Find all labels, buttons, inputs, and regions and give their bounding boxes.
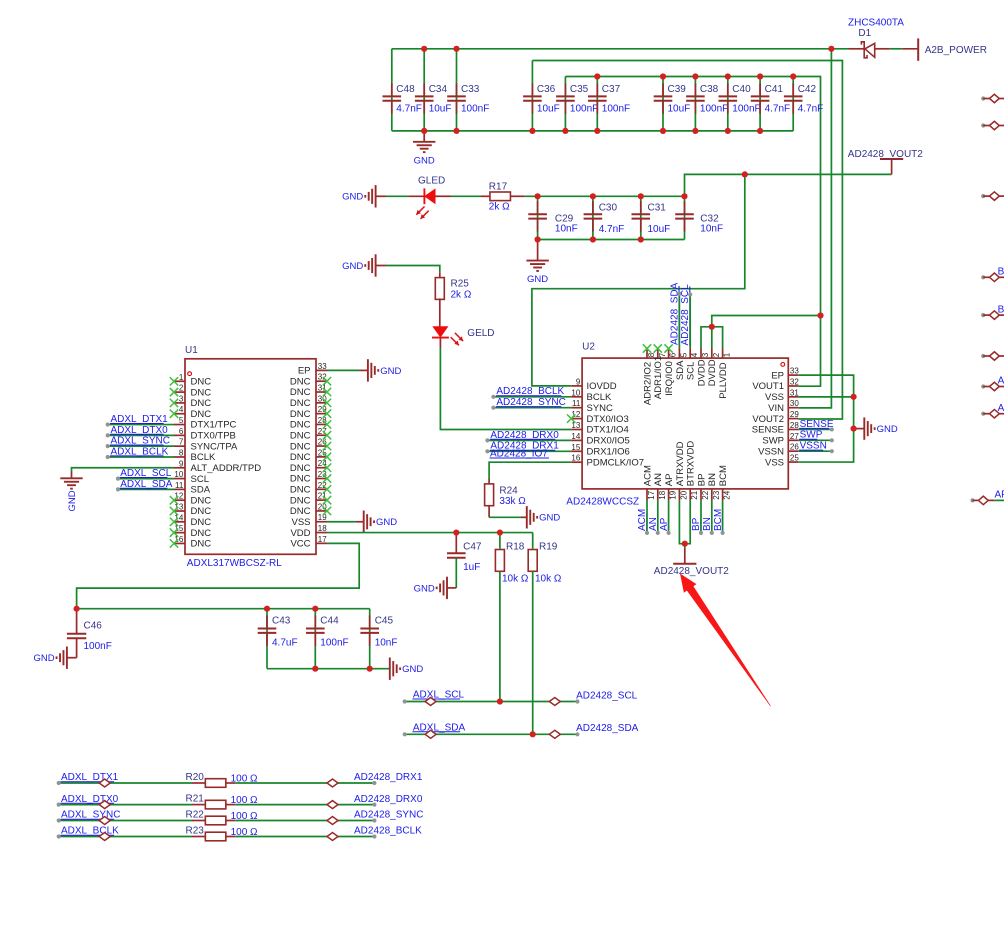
net label BN — [702, 517, 713, 531]
svg-text:10uF: 10uF — [668, 103, 691, 114]
svg-text:GND: GND — [342, 261, 363, 272]
svg-text:VSSN: VSSN — [758, 446, 784, 457]
wire GND to GLED — [376, 195, 425, 197]
svg-text:19: 19 — [669, 490, 678, 499]
svg-text:5: 5 — [679, 352, 688, 357]
wire C47 to ground — [447, 558, 456, 588]
wire VOUT2 top rail — [532, 61, 842, 420]
svg-text:16: 16 — [571, 454, 580, 463]
capacitor C42 — [784, 83, 823, 114]
svg-text:10nF: 10nF — [700, 224, 723, 235]
resistor R22 — [186, 810, 259, 825]
svg-text:DNC: DNC — [191, 377, 212, 388]
svg-text:AN: AN — [653, 473, 664, 486]
svg-text:GND: GND — [414, 583, 435, 594]
net label AD2428_SDA row — [576, 723, 639, 734]
svg-text:3: 3 — [701, 352, 710, 357]
wire C43 bank GND rail — [267, 668, 390, 670]
net label ADXL_SYNC — [110, 436, 170, 447]
svg-text:VIN: VIN — [768, 403, 784, 414]
svg-text:28: 28 — [790, 421, 799, 430]
ground U1 EP — [368, 359, 402, 381]
svg-text:D1: D1 — [858, 28, 871, 39]
svg-text:DNC: DNC — [290, 430, 311, 441]
svg-text:DNC: DNC — [191, 398, 212, 409]
U2 pin names — [587, 356, 785, 486]
wire U1 pin9 to ground — [72, 468, 175, 479]
svg-text:C48: C48 — [396, 84, 415, 95]
ground C46 — [33, 647, 66, 669]
net label AP — [659, 517, 670, 531]
svg-text:4.7nF: 4.7nF — [599, 224, 625, 235]
wire GND to R25 — [376, 266, 440, 279]
svg-text:10uF: 10uF — [648, 224, 671, 235]
resistor R21 — [186, 794, 259, 809]
svg-text:BCLK: BCLK — [587, 392, 612, 403]
svg-text:1: 1 — [723, 352, 732, 357]
wire AD2428_SDA column — [677, 292, 681, 349]
wire AD2428_DRX1 row right — [225, 781, 377, 785]
net label AD2428_SCL row — [576, 690, 638, 701]
svg-text:DNC: DNC — [290, 398, 311, 409]
svg-text:U1: U1 — [185, 345, 198, 356]
capacitor C45 — [360, 615, 397, 648]
svg-text:DNC: DNC — [290, 387, 311, 398]
U2 no-connect marks — [567, 344, 673, 423]
wire cap C35 vertical — [564, 77, 566, 131]
wire AD2428_SYNC row right — [225, 818, 377, 822]
resistor R24 — [485, 484, 527, 507]
svg-text:DNC: DNC — [290, 506, 311, 517]
svg-text:DVDD: DVDD — [707, 359, 718, 386]
svg-text:AP: AP — [664, 474, 675, 487]
net label ADXL_BCLK — [61, 826, 120, 837]
net label AD2428_DRX0 — [490, 430, 559, 441]
diode D1 ZHCS400TA — [831, 17, 918, 58]
svg-text:DVDD: DVDD — [696, 359, 707, 386]
wire U2 VSS31 — [798, 396, 853, 398]
svg-text:10k Ω: 10k Ω — [502, 573, 529, 584]
svg-text:DNC: DNC — [290, 474, 311, 485]
wire VDD net — [327, 532, 533, 534]
wire DVDD top rail — [565, 77, 820, 387]
wire cap C40 vertical — [727, 77, 729, 131]
wire cap C43 vertical — [266, 609, 268, 669]
svg-text:2k Ω: 2k Ω — [451, 289, 472, 300]
svg-text:6: 6 — [669, 352, 678, 357]
wire cap C41 vertical — [759, 77, 761, 131]
connector diamond AD2428_DRX0 — [327, 801, 338, 809]
wire VIN riser to U2 pin30 — [798, 49, 831, 408]
connector diamond AD2428_DRX1 — [327, 779, 338, 787]
wire AP column — [667, 500, 671, 535]
connector diamond ADXL_BCLK — [99, 833, 110, 841]
svg-text:GND: GND — [376, 517, 397, 528]
wire C46 to ground — [67, 638, 77, 658]
wire R18 column — [499, 533, 501, 549]
svg-text:C30: C30 — [599, 203, 618, 214]
wire R19 to ADXL_SDA — [532, 571, 534, 734]
net label AD2428_SYNC — [354, 810, 423, 821]
svg-text:GND: GND — [380, 366, 401, 377]
wire cap C39 vertical — [662, 77, 664, 131]
wire cap C34 vertical — [423, 49, 425, 131]
net label ADXL_SDA — [412, 722, 465, 733]
svg-text:4: 4 — [690, 352, 699, 357]
resistor R18 — [495, 542, 529, 585]
svg-text:ACM: ACM — [642, 465, 653, 486]
svg-text:C32: C32 — [700, 213, 719, 224]
svg-text:DNC: DNC — [290, 495, 311, 506]
svg-text:DTX0/TPB: DTX0/TPB — [191, 431, 236, 442]
svg-text:DNC: DNC — [290, 376, 311, 387]
wire IOVDD riser — [532, 174, 745, 386]
net label SWP — [799, 430, 823, 441]
svg-text:C37: C37 — [602, 84, 621, 95]
wire cap C42 vertical — [792, 77, 794, 131]
svg-text:18: 18 — [658, 490, 667, 499]
svg-text:10k Ω: 10k Ω — [535, 573, 562, 584]
capacitor C46 — [67, 609, 112, 652]
wire R19 column — [532, 533, 534, 549]
net label AN — [648, 517, 659, 531]
net label AD2428_BCLK — [354, 826, 422, 837]
net label AD2428_SDA — [669, 282, 680, 345]
svg-text:21: 21 — [690, 490, 699, 499]
svg-text:13: 13 — [571, 421, 580, 430]
capacitor C41 — [751, 83, 790, 114]
svg-text:17: 17 — [647, 490, 656, 499]
svg-text:5: 5 — [179, 416, 184, 425]
svg-text:C31: C31 — [648, 203, 667, 214]
svg-text:1: 1 — [179, 373, 184, 382]
svg-text:DNC: DNC — [191, 539, 212, 550]
svg-text:SDA: SDA — [675, 360, 686, 380]
svg-text:ATRXVDD: ATRXVDD — [675, 441, 686, 486]
svg-text:VDD: VDD — [290, 528, 310, 539]
svg-text:R24: R24 — [499, 485, 518, 496]
svg-text:20: 20 — [679, 490, 688, 499]
svg-text:10uF: 10uF — [537, 103, 560, 114]
svg-text:SWP: SWP — [762, 436, 784, 447]
connector off-page AN y413 — [981, 403, 1004, 418]
svg-text:2k Ω: 2k Ω — [489, 202, 510, 213]
svg-text:GND: GND — [877, 424, 898, 435]
svg-text:C39: C39 — [668, 84, 687, 95]
svg-text:DNC: DNC — [290, 409, 311, 420]
resistor R23 — [186, 826, 259, 841]
svg-text:AD2428WCCSZ: AD2428WCCSZ — [566, 497, 639, 508]
svg-text:100nF: 100nF — [461, 103, 489, 114]
svg-text:100nF: 100nF — [732, 103, 760, 114]
ground U2 — [864, 417, 898, 439]
wire cap C48 vertical — [391, 49, 393, 131]
net label AD2428_SCL — [680, 284, 691, 346]
net label ADXL_DTX0 — [61, 794, 119, 805]
wire cap C44 vertical — [314, 609, 316, 669]
wire AD2428_DRX1 to U2 — [485, 449, 571, 453]
svg-text:100nF: 100nF — [320, 638, 348, 649]
capacitor C47 — [447, 533, 482, 573]
svg-text:EP: EP — [771, 370, 784, 381]
ground R25 row — [342, 254, 375, 276]
svg-text:25: 25 — [790, 454, 799, 463]
svg-text:A2B_POWER: A2B_POWER — [925, 45, 987, 56]
wire ADXL_DTX1 row left — [57, 781, 207, 785]
svg-text:DNC: DNC — [191, 528, 212, 539]
svg-text:27: 27 — [790, 432, 799, 441]
capacitor C35 — [556, 83, 598, 114]
net label AD2428_IO7 — [490, 449, 550, 460]
svg-text:IRQ/IO0: IRQ/IO0 — [664, 361, 675, 396]
svg-text:10: 10 — [571, 388, 580, 397]
svg-text:SYNC: SYNC — [587, 403, 614, 414]
U1 left pin stubs — [174, 381, 185, 543]
wire DVDD bracket — [701, 316, 821, 349]
svg-text:GELD: GELD — [467, 328, 494, 339]
connector off-page net y98 — [981, 94, 1004, 103]
capacitor C48 — [383, 83, 422, 114]
ground U1 VSS — [364, 511, 398, 533]
wire cap C37 vertical — [596, 77, 598, 131]
svg-text:VSS: VSS — [765, 392, 784, 403]
wire R18 to ADXL_SCL — [499, 571, 501, 701]
svg-text:23: 23 — [712, 490, 721, 499]
connector off-page BN y315 — [981, 304, 1004, 319]
wire ADXL_BCLK row left — [57, 834, 207, 838]
capacitor C37 — [588, 83, 630, 114]
wire GLED to R17 — [435, 195, 490, 197]
svg-text:GND: GND — [67, 490, 78, 511]
wire cap C29 vertical — [537, 196, 539, 239]
ground below C29 — [526, 240, 548, 286]
net label SENSE — [799, 419, 834, 430]
svg-text:C34: C34 — [429, 84, 448, 95]
svg-text:ADR1/IO1: ADR1/IO1 — [653, 356, 664, 399]
svg-text:26: 26 — [790, 443, 799, 452]
net label AD2428_SYNC — [496, 397, 566, 408]
svg-text:GND: GND — [414, 155, 435, 166]
wire ADXL_DTX1 to U1 — [106, 422, 174, 426]
svg-text:VOUT2: VOUT2 — [752, 414, 784, 425]
svg-text:GND: GND — [527, 274, 548, 285]
svg-text:4.7uF: 4.7uF — [272, 638, 298, 649]
svg-text:GND: GND — [539, 513, 560, 524]
wire AD2428_BCLK row right — [225, 834, 377, 838]
svg-text:3: 3 — [179, 394, 184, 403]
wire ADXL_SYNC to U1 — [106, 444, 174, 448]
svg-text:VSS: VSS — [291, 517, 310, 528]
ground R24 — [527, 506, 561, 528]
svg-text:GND: GND — [342, 192, 363, 203]
resistor R17 — [489, 182, 511, 213]
U1 no-connect marks — [170, 377, 331, 548]
connector off-page net y356 — [981, 352, 1004, 361]
svg-text:U2: U2 — [582, 342, 595, 353]
svg-text:DNC: DNC — [191, 495, 212, 506]
svg-text:R17: R17 — [489, 182, 508, 193]
svg-text:DNC: DNC — [191, 506, 212, 517]
wire VSSN — [798, 449, 834, 453]
U2 pin numbers — [571, 352, 799, 499]
svg-text:C29: C29 — [555, 213, 574, 224]
svg-text:BP: BP — [998, 267, 1004, 278]
svg-text:C41: C41 — [765, 84, 784, 95]
capacitor C36 — [523, 83, 560, 114]
svg-text:8: 8 — [179, 448, 184, 457]
svg-text:C35: C35 — [570, 84, 589, 95]
wire ADXL_DTX0 row left — [57, 803, 207, 807]
connector diamond SDA left — [425, 730, 436, 738]
svg-text:4: 4 — [179, 405, 184, 414]
svg-text:BN: BN — [707, 473, 718, 486]
wire cap C30 vertical — [592, 196, 594, 239]
wire ADXL_DTX0 to U1 — [106, 433, 174, 437]
capacitor C29 — [528, 201, 577, 235]
capacitor C43 — [258, 615, 298, 648]
wire C29 bank GND rail — [538, 239, 685, 241]
wire BCM column — [721, 500, 725, 535]
connector diamond AD2428_SYNC — [327, 817, 338, 825]
capacitor C39 — [654, 83, 691, 114]
svg-text:PLLVDD: PLLVDD — [718, 362, 729, 398]
wire BP column — [699, 500, 703, 535]
svg-text:GLED: GLED — [418, 175, 445, 186]
net label AD2428_BCLK — [496, 386, 565, 397]
wire GELD to U2 pin13 — [440, 339, 571, 430]
U2 pin stubs — [571, 349, 798, 501]
svg-text:DTX1/IO4: DTX1/IO4 — [587, 425, 629, 436]
svg-text:10nF: 10nF — [375, 638, 398, 649]
svg-text:DTX1/TPC: DTX1/TPC — [191, 420, 237, 431]
svg-text:AD2428_SCL: AD2428_SCL — [576, 690, 638, 701]
net label BCM — [713, 509, 724, 532]
svg-text:BCLK: BCLK — [191, 452, 216, 463]
connector off-page net y196 — [981, 192, 1004, 201]
wire cap C32 vertical — [684, 196, 686, 239]
connector off-page AP y500 — [970, 490, 1004, 505]
svg-text:24: 24 — [723, 490, 732, 499]
wire R24 to ground — [489, 506, 527, 518]
svg-text:2: 2 — [179, 384, 184, 393]
wire cap C31 vertical — [640, 196, 642, 239]
wire U2 ground stub — [854, 428, 865, 430]
net label AD2428_DRX0 — [354, 794, 423, 805]
svg-text:C43: C43 — [272, 615, 291, 626]
svg-text:BN: BN — [998, 304, 1004, 315]
connector diamond SCL right — [549, 698, 560, 706]
svg-text:ADR2/IO2: ADR2/IO2 — [642, 362, 653, 405]
wire VCC net — [77, 543, 360, 608]
svg-text:C40: C40 — [732, 84, 751, 95]
svg-text:R21: R21 — [186, 794, 205, 805]
svg-text:BP: BP — [696, 474, 707, 487]
svg-text:SCL: SCL — [191, 474, 209, 485]
wire AD2428_DRX0 row right — [225, 803, 377, 807]
ground C47 — [414, 577, 447, 599]
ground U1 pin9 — [60, 478, 82, 511]
svg-text:6: 6 — [179, 427, 184, 436]
resistor R19 — [528, 542, 562, 585]
svg-text:31: 31 — [790, 388, 799, 397]
annotation arrow — [680, 574, 771, 707]
wire ADXL_SYNC row left — [57, 818, 207, 822]
svg-text:R18: R18 — [506, 542, 525, 553]
connector off-page BP y277 — [981, 267, 1004, 282]
svg-text:AD2428_SYNC: AD2428_SYNC — [354, 810, 423, 821]
svg-text:10uF: 10uF — [429, 103, 452, 114]
svg-text:4.7nF: 4.7nF — [798, 103, 824, 114]
connector off-page net y125 — [981, 121, 1004, 130]
net label ADXL_SCL — [120, 468, 172, 479]
led GELD — [432, 327, 495, 346]
ground C43 bank — [390, 658, 424, 680]
connector diamond ADXL_DTX0 — [99, 801, 110, 809]
svg-text:11: 11 — [572, 399, 581, 408]
svg-text:IOVDD: IOVDD — [587, 381, 617, 392]
svg-text:DNC: DNC — [290, 485, 311, 496]
svg-text:C33: C33 — [461, 84, 480, 95]
wire U1 EP to ground — [327, 369, 368, 371]
svg-text:SENSE: SENSE — [752, 425, 784, 436]
net label VSSN — [799, 441, 827, 452]
svg-text:4.7nF: 4.7nF — [765, 103, 791, 114]
svg-text:R22: R22 — [186, 810, 205, 821]
port AD2428_VOUT2 top — [848, 149, 923, 175]
wire VOUT2 to port — [685, 174, 892, 196]
svg-text:SCL: SCL — [686, 362, 697, 380]
capacitor C34 — [415, 83, 452, 114]
svg-text:EP: EP — [298, 366, 311, 377]
capacitor C40 — [719, 83, 761, 114]
port AD2428_VOUT2 bottom — [654, 549, 729, 577]
svg-text:C45: C45 — [375, 615, 394, 626]
svg-text:DNC: DNC — [191, 409, 212, 420]
svg-text:VSS: VSS — [765, 457, 784, 468]
svg-text:C47: C47 — [463, 541, 482, 552]
svg-text:VOUT1: VOUT1 — [752, 381, 784, 392]
wire U2 EP/VSS loop — [798, 375, 853, 462]
svg-text:11: 11 — [175, 481, 184, 490]
svg-text:PDMCLK/IO7: PDMCLK/IO7 — [587, 457, 645, 468]
svg-text:ZHCS400TA: ZHCS400TA — [848, 17, 904, 28]
net label ADXL_SCL — [412, 690, 464, 701]
svg-text:33k Ω: 33k Ω — [499, 496, 526, 507]
svg-text:DNC: DNC — [290, 452, 311, 463]
svg-text:GND: GND — [402, 664, 423, 675]
svg-text:DRX1/IO6: DRX1/IO6 — [587, 447, 630, 458]
svg-text:15: 15 — [571, 443, 580, 452]
svg-text:17: 17 — [318, 535, 327, 544]
svg-text:BCM: BCM — [718, 465, 729, 486]
svg-text:AD2428_BCLK: AD2428_BCLK — [354, 826, 422, 837]
wire R17 to caps — [511, 195, 685, 197]
wire cap C33 vertical — [456, 49, 458, 131]
svg-text:1uF: 1uF — [463, 562, 480, 573]
svg-text:SYNC/TPA: SYNC/TPA — [191, 441, 238, 452]
svg-text:DTX0/IO3: DTX0/IO3 — [587, 414, 629, 425]
svg-text:SDA: SDA — [191, 485, 211, 496]
net label ADXL_SDA — [120, 479, 173, 490]
net label ADXL_DTX0 — [110, 425, 168, 436]
capacitor C31 — [632, 201, 671, 235]
net label ADXL_BCLK — [110, 446, 169, 457]
svg-text:7: 7 — [179, 438, 184, 447]
svg-text:DNC: DNC — [191, 387, 212, 398]
capacitor C30 — [584, 201, 625, 235]
net label ACM — [637, 509, 648, 532]
wire AD2428_DRX0 to U2 — [485, 438, 571, 442]
